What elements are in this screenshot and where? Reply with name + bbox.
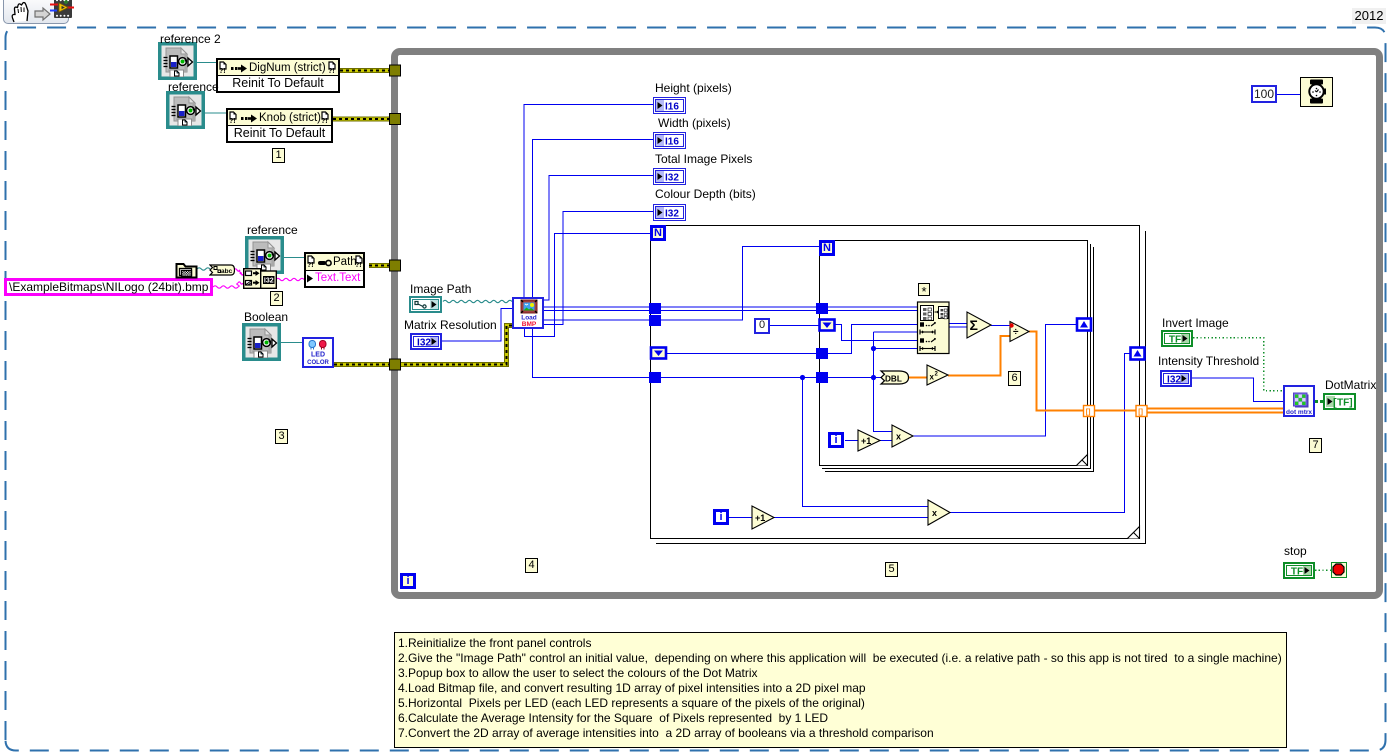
svg-text:+1: +1 xyxy=(861,436,871,446)
square x^2 xyxy=(927,365,948,385)
label Intensity Threshold xyxy=(1158,354,1259,368)
tunnel 1D inner xyxy=(816,372,828,383)
wire reference2 to DigNum xyxy=(196,62,216,64)
wire orange between tunnels xyxy=(1094,410,1136,412)
label Total Image Pixels xyxy=(655,152,752,166)
svg-text:I16: I16 xyxy=(665,136,679,147)
folder constant xyxy=(175,260,198,284)
array subset node xyxy=(918,302,950,354)
wire inner increment to multiply xyxy=(880,440,892,442)
control Matrix Resolution xyxy=(410,333,443,355)
label Invert Image xyxy=(1162,316,1229,330)
svg-text:I32: I32 xyxy=(1167,375,1181,386)
label Matrix Resolution xyxy=(404,318,497,332)
control Invert Image xyxy=(1161,330,1194,352)
svg-text:dot mtrx: dot mtrx xyxy=(1286,409,1312,415)
tunnel refnum 1 xyxy=(390,65,401,76)
wire inner multiply to inner out tunnel xyxy=(913,325,1077,437)
tunnel 2D array inner xyxy=(816,303,828,314)
wire outer increment to multiply xyxy=(774,517,928,519)
tunnel orange inner xyxy=(1084,406,1095,417)
wire Knob to tunnel xyxy=(333,117,392,122)
svg-text:BMP: BMP xyxy=(522,321,537,327)
wire to subset row4 xyxy=(874,348,918,350)
wire outer index tunnel to inner tunnel xyxy=(666,353,819,355)
indicator Width pixels xyxy=(653,132,686,154)
svg-text:TF: TF xyxy=(1291,567,1303,578)
iteration terminal i (inner) xyxy=(828,432,844,448)
invoke node DigNum ReinitToDefault xyxy=(216,58,340,93)
control Image Path xyxy=(409,296,442,318)
wire LED COLOR to tunnel xyxy=(334,362,392,367)
svg-text:[]: [] xyxy=(1086,409,1091,416)
tunnel orange outer xyxy=(1136,406,1147,417)
wire converter to Text.Text (squiggle) xyxy=(276,278,304,280)
label Colour Depth bits xyxy=(655,187,756,201)
sum (sigma) xyxy=(967,312,991,338)
label 3 xyxy=(275,429,288,444)
label stop xyxy=(1284,544,1307,558)
control refnum Boolean xyxy=(242,323,281,361)
wire reference to Knob xyxy=(204,112,226,114)
wire Height xyxy=(524,105,653,298)
wire cols to inner N xyxy=(544,247,819,321)
tunnel refnum 4 xyxy=(390,359,401,370)
property node Path Text.Text xyxy=(304,252,365,288)
label Height pixels xyxy=(655,81,732,95)
wire Width xyxy=(533,140,654,298)
indicator DotMatrix xyxy=(1323,393,1356,415)
control stop xyxy=(1283,562,1316,584)
wire 100 to wait xyxy=(1277,94,1300,96)
wire Colour Depth xyxy=(544,212,653,325)
wire branch inner vertical xyxy=(874,332,893,432)
label 2 xyxy=(270,291,283,306)
wire 0 constant to inner index tunnel xyxy=(770,325,819,327)
wire divide to inner orange tunnel xyxy=(1029,332,1084,411)
wire sum to divide xyxy=(991,325,1010,327)
wire LED tunnel to LoadBMP xyxy=(398,326,512,365)
wire Boolean to LED COLOR xyxy=(281,342,302,344)
label 1 xyxy=(272,148,285,163)
wire outer multiply to outer out tunnel xyxy=(950,354,1131,513)
indicator Colour Depth bits xyxy=(653,204,686,226)
wire Total Image Pixels xyxy=(544,176,653,301)
path to string conversion xyxy=(209,263,235,281)
wire abc to converter (squiggle) xyxy=(234,269,240,271)
iteration terminal i (outer) xyxy=(713,509,729,525)
subVI dot mtrx xyxy=(1283,385,1315,417)
while loop border xyxy=(391,48,1383,599)
wire dotmtrx to DotMatrix (bool array) xyxy=(1315,400,1323,403)
count terminal N (inner) xyxy=(819,240,835,256)
tunnel 2D array outer xyxy=(649,303,661,314)
wire string constant to converter (squiggle) xyxy=(213,286,238,288)
wire 2D intensity array to dotmtrx (double) xyxy=(1147,408,1283,410)
svg-text:I32: I32 xyxy=(264,278,274,285)
label reference (path) xyxy=(247,223,298,237)
count terminal N (outer) xyxy=(650,225,666,241)
wire Intensity Threshold to dotmtrx xyxy=(1192,378,1283,402)
label reference 2 xyxy=(160,32,221,46)
subVI Load BMP xyxy=(512,297,544,329)
svg-text:I32: I32 xyxy=(417,338,431,349)
svg-text:x: x xyxy=(896,432,901,442)
loop condition terminal xyxy=(1331,562,1347,578)
DBL conversion bullet xyxy=(881,371,909,384)
wire inner tunnel to subset row1 xyxy=(828,325,917,354)
tunnel 1D outer xyxy=(649,372,661,383)
comment text block xyxy=(394,632,1287,748)
wire branch to outer multiply xyxy=(803,378,929,507)
svg-text:abc: abc xyxy=(221,268,233,275)
wire DigNum to tunnel xyxy=(340,68,392,73)
wire Invert Image to dotmtrx (dotted) xyxy=(1193,338,1283,391)
increment +1 (inner) xyxy=(858,430,880,451)
constant * xyxy=(918,283,930,296)
toolbar xyxy=(3,0,69,24)
subVI LED COLOR popup xyxy=(302,337,334,368)
tunnel indexing inner right xyxy=(1077,319,1091,331)
invoke node Knob ReinitToDefault xyxy=(226,108,333,143)
svg-text:COLOR: COLOR xyxy=(307,360,329,366)
wire inner i to increment xyxy=(845,440,858,442)
svg-text:x: x xyxy=(932,508,937,518)
constant 100 xyxy=(1251,85,1277,103)
wait ms function xyxy=(1300,77,1333,107)
control refnum reference xyxy=(166,91,205,129)
wire 2D pixel array (double) xyxy=(544,306,917,308)
label 2012 xyxy=(1352,8,1386,24)
divide xyxy=(1010,322,1029,342)
svg-text:[]: [] xyxy=(1138,409,1143,416)
indicator Total Image Pixels xyxy=(653,168,686,190)
wire DBL to square xyxy=(908,377,927,379)
label DotMatrix xyxy=(1325,378,1376,392)
label 5 xyxy=(885,562,898,577)
wire 1D pixel line xyxy=(533,329,882,378)
indicator Height pixels xyxy=(653,97,686,119)
tunnel auto-index inner left xyxy=(820,320,835,331)
constant 0 xyxy=(754,318,770,334)
label Image Path xyxy=(410,282,471,296)
svg-text:I32: I32 xyxy=(665,208,679,219)
control Intensity Threshold xyxy=(1160,370,1193,392)
wire Image Path to LoadBMP (squiggle) xyxy=(443,300,512,302)
string constant ExampleBitmaps path xyxy=(4,278,213,296)
wire rows to outer N xyxy=(525,234,651,337)
svg-text:I16: I16 xyxy=(665,101,679,112)
for loop 6 (inner) frame xyxy=(822,244,1091,469)
svg-text:Σ: Σ xyxy=(970,317,978,333)
tunnel refnum 2 xyxy=(390,114,401,125)
multiply (inner) xyxy=(892,425,913,447)
label Boolean xyxy=(244,310,288,324)
iteration terminal i (while) xyxy=(400,573,416,589)
tunnel indexing outer right xyxy=(1131,348,1145,360)
label Width pixels xyxy=(658,116,731,130)
wire to subset row2 xyxy=(874,331,918,333)
label 4 xyxy=(525,558,538,573)
multiply (outer) xyxy=(928,500,950,525)
control refnum reference (path) xyxy=(245,236,284,274)
wire Matrix Resolution to LoadBMP xyxy=(442,309,512,342)
coercion dot on divide xyxy=(1009,323,1013,327)
label reference xyxy=(168,80,219,94)
svg-text:LED: LED xyxy=(311,352,325,359)
wire outer i to increment xyxy=(729,517,752,519)
tunnel cols outer xyxy=(649,315,661,326)
wire reference to Path node xyxy=(284,257,304,259)
tunnel refnum 3 xyxy=(390,260,401,271)
for loop 5 (outer) frame xyxy=(656,231,1146,544)
wire folder to string (squiggle) xyxy=(197,268,210,270)
svg-text:I32: I32 xyxy=(665,172,679,183)
label 6 xyxy=(1008,371,1021,386)
string to array converter xyxy=(243,268,277,294)
wire inner index tunnel to subset row3 xyxy=(835,325,917,341)
wire stop to loop condition (dotted) xyxy=(1315,569,1331,571)
svg-text:÷: ÷ xyxy=(1013,327,1019,338)
svg-text:TF: TF xyxy=(1169,335,1181,346)
increment +1 (outer) xyxy=(752,506,774,529)
control refnum reference 2 xyxy=(158,42,197,80)
svg-text:TF]: TF] xyxy=(1337,398,1353,409)
tunnel row1 inner xyxy=(816,348,828,359)
label 7 xyxy=(1309,438,1322,453)
tunnel auto-index outer left xyxy=(651,348,666,359)
svg-text:DBL: DBL xyxy=(885,374,902,383)
wire subset to sum (double) xyxy=(949,323,967,325)
wire square to divide xyxy=(948,336,1010,376)
wire junction dots xyxy=(800,375,805,380)
wire Path node to tunnel xyxy=(369,263,392,268)
svg-text:+1: +1 xyxy=(755,513,765,523)
